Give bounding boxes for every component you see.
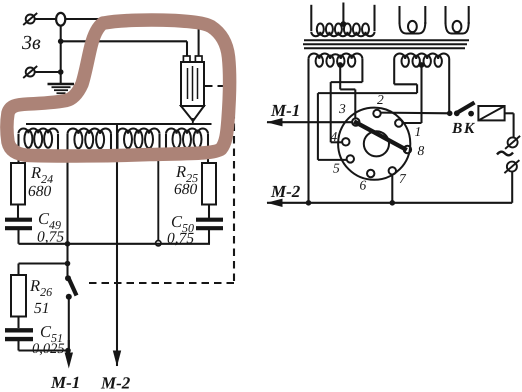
wire branch to R26 xyxy=(19,262,68,264)
resistor R26 xyxy=(11,275,26,317)
wire R26 to C51 xyxy=(17,317,19,329)
switch S1 bottom contact xyxy=(66,294,72,300)
svg-text:680: 680 xyxy=(174,181,198,198)
capacitor C49 xyxy=(5,218,32,222)
terminal X2 (lower left) xyxy=(26,68,35,77)
junction dot E-right/BK xyxy=(447,111,453,117)
contact 3 xyxy=(352,118,359,125)
wire fuse to terminal xyxy=(505,112,514,114)
wire X1 to lamp xyxy=(35,18,56,20)
M-2 output arrow (left schematic) xyxy=(113,351,121,367)
svg-text:М-2: М-2 xyxy=(270,182,301,201)
winding E left lead step xyxy=(394,83,417,85)
M-1 arrow (right schematic) xyxy=(267,121,352,123)
capacitor C50 xyxy=(196,218,223,222)
svg-text:2: 2 xyxy=(377,92,384,107)
svg-text:0,025: 0,025 xyxy=(32,341,65,357)
annotation stroke (brown freehand loop) xyxy=(7,20,230,156)
lamp/fuse oval EL1 xyxy=(56,13,65,26)
junction dot A xyxy=(58,39,64,45)
wire L1/L2 junction down to bus xyxy=(58,155,68,157)
wire terminal X4 to M-2 xyxy=(511,172,513,203)
open node on bus xyxy=(156,241,161,246)
winding D right lead to contact 4 xyxy=(361,81,363,83)
svg-text:7: 7 xyxy=(399,171,407,186)
svg-text:1: 1 xyxy=(415,124,422,139)
contact 4 xyxy=(342,138,349,145)
wire C50 to bus xyxy=(208,230,210,244)
rotor arm xyxy=(354,121,407,150)
ground xyxy=(48,83,75,85)
contact 7 wire to M-2 xyxy=(391,175,393,203)
wire L3/L4 junction down to open node xyxy=(160,155,167,157)
choke L1 xyxy=(17,134,19,163)
wire X2 to junction xyxy=(35,71,61,73)
AC label ~ xyxy=(497,152,513,156)
wire R24 to C49 xyxy=(17,205,19,219)
winding B xyxy=(398,6,400,24)
terminal X3 xyxy=(508,137,518,147)
wire C51 to M-1 line xyxy=(17,340,19,350)
junction dot contact7/M-2 xyxy=(390,200,396,206)
svg-text:R26: R26 xyxy=(29,276,52,299)
dashed link from tube xyxy=(205,85,234,87)
svg-text:3: 3 xyxy=(338,101,346,116)
winding D tap wire to contact 3 xyxy=(340,88,355,90)
svg-text:М-2: М-2 xyxy=(100,374,131,392)
switch S1 top contact xyxy=(65,275,71,281)
resistor R25 xyxy=(202,163,216,205)
secondary winding E xyxy=(393,59,395,84)
M-2 center tap line xyxy=(116,124,118,366)
svg-text:3в: 3в xyxy=(21,32,41,54)
switch S1 blade xyxy=(69,279,77,296)
winding A center tap xyxy=(342,3,344,25)
contact 6 xyxy=(367,170,374,177)
svg-text:4: 4 xyxy=(331,129,338,144)
svg-text:8: 8 xyxy=(418,143,425,158)
junction dot D-left/M-2 xyxy=(306,200,312,206)
contact 5 xyxy=(347,155,354,162)
svg-text:680: 680 xyxy=(28,183,52,200)
bottom bus wire xyxy=(19,243,211,245)
resistor R24 xyxy=(11,163,25,205)
wire R25 to C50 xyxy=(208,205,210,219)
primary winding A xyxy=(310,5,312,31)
M-2 wire (right schematic) xyxy=(267,202,512,204)
junction dot C51/M-1 xyxy=(65,348,71,354)
choke L3 xyxy=(116,134,118,157)
vibrator tube V1 body xyxy=(181,62,204,106)
tube tip lead xyxy=(192,118,194,124)
capacitor C51 xyxy=(5,328,33,332)
contact 2 wire to BK xyxy=(381,112,450,115)
wire switch to M-1 arrow xyxy=(68,298,70,352)
M-1 output arrow (left schematic) xyxy=(68,340,70,353)
wire mid horizontal to tube left pin xyxy=(61,40,187,42)
long wire (contact5 to E-left) xyxy=(318,92,417,94)
svg-text:5: 5 xyxy=(333,161,340,176)
contact 8 xyxy=(404,146,411,153)
fuse FU1 xyxy=(478,106,504,120)
tube V1 pins xyxy=(183,56,190,62)
wire bus down to R26 branch xyxy=(66,244,68,277)
rotary switch inner circle xyxy=(364,131,389,156)
terminal X1 (top left) xyxy=(26,15,35,24)
winding C xyxy=(444,6,446,24)
svg-text:6: 6 xyxy=(360,178,367,193)
tube V1 electrodes xyxy=(187,68,189,99)
transformer core xyxy=(304,39,469,41)
choke L4 xyxy=(165,134,167,157)
contact 7 xyxy=(389,167,396,174)
winding E center tap xyxy=(419,62,425,68)
junction dot branch xyxy=(65,261,71,267)
contact 5 wire xyxy=(317,93,319,160)
wire C49 to bus xyxy=(17,230,19,244)
winding D center tap xyxy=(337,62,343,68)
contact 1 xyxy=(395,119,402,126)
switch BK contact b xyxy=(468,111,474,117)
dashed link horizontal to switch xyxy=(86,282,234,284)
vertical wire from lamp to ground xyxy=(60,26,62,85)
switch BK contact a xyxy=(454,110,460,116)
wire lamp to tube right pin xyxy=(65,18,198,20)
svg-text:М-1: М-1 xyxy=(50,373,80,392)
svg-text:М-1: М-1 xyxy=(270,101,300,120)
rotary switch outer circle xyxy=(338,108,410,180)
junction dot B xyxy=(58,69,64,75)
tube V1 cone xyxy=(181,106,204,121)
contact 2 xyxy=(373,110,380,117)
winding D left lead down to M-2 xyxy=(307,59,309,203)
dashed link vertical xyxy=(233,86,235,283)
svg-text:ВК: ВК xyxy=(451,120,476,137)
svg-text:51: 51 xyxy=(34,300,50,317)
switch BK blade xyxy=(458,103,475,113)
junction dot on bus xyxy=(65,241,71,247)
terminal X4 xyxy=(507,162,517,172)
top bus wire (core line) xyxy=(26,123,212,125)
choke L2 xyxy=(66,134,68,157)
secondary winding D xyxy=(361,59,363,82)
